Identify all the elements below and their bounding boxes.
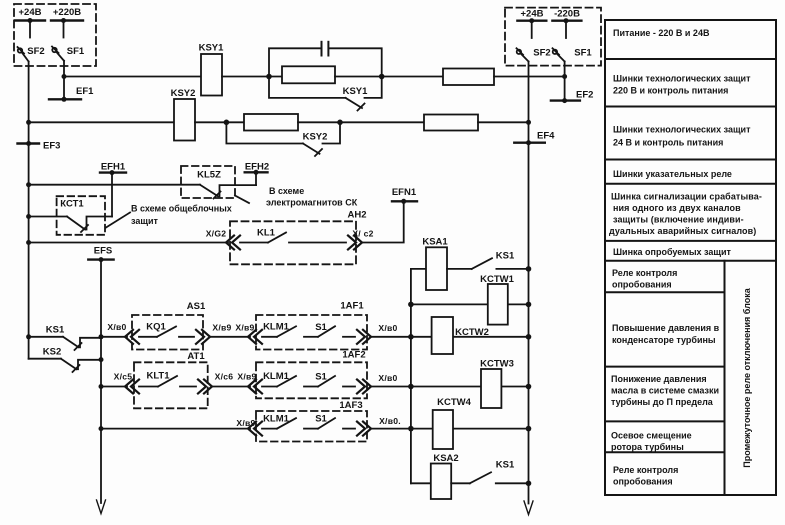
svg-text:ния одного из двух каналов: ния одного из двух каналов [613, 203, 741, 213]
arrow down (right) [524, 501, 533, 515]
svg-text:EF3: EF3 [43, 141, 60, 152]
svg-text:SF1: SF1 [574, 48, 592, 59]
relay coil KCTW1 [480, 274, 514, 325]
node KS2 right junction [99, 357, 104, 362]
connector X/v0 row2 right [357, 373, 398, 394]
wire row1 right segment [371, 336, 411, 338]
connector X/v9 row3 (into 1AF3) [236, 418, 262, 436]
svg-text:Повышение давления в: Повышение давления в [612, 323, 720, 333]
terminal EF4 [514, 131, 555, 146]
svg-text:X/в9: X/в9 [235, 323, 254, 333]
svg-text:-220В: -220В [554, 9, 580, 20]
contact KLM1 row1 [262, 322, 296, 337]
breaker SF2 (right) [517, 48, 551, 62]
svg-text:КСТ1: КСТ1 [60, 199, 84, 210]
svg-text:X/в0: X/в0 [378, 323, 397, 333]
svg-text:KLT1: KLT1 [146, 371, 170, 382]
svg-text:X/с6: X/с6 [215, 372, 234, 382]
legend row 10 text [611, 431, 692, 453]
svg-text:конденсаторе турбины: конденсаторе турбины [612, 335, 716, 345]
svg-text:KLM1: KLM1 [263, 322, 290, 333]
contact KLM1 row3 [262, 414, 296, 429]
node line2 left junction [26, 120, 31, 125]
contact KCT1 [67, 217, 112, 233]
resistor R2 [443, 69, 494, 86]
annotation leader to CK electromagnets [235, 186, 358, 208]
svg-text:Понижение давления: Понижение давления [611, 374, 707, 384]
node RC left junction [266, 74, 272, 80]
svg-text:KSY1: KSY1 [199, 43, 225, 54]
wire KCTW1 line [411, 303, 529, 305]
node collector/row1 [408, 334, 414, 340]
node KCT1 line left junction [26, 214, 31, 219]
node KS1 right junction [99, 334, 104, 339]
connector X/v0 row1 left [107, 322, 139, 344]
right supply dashed box [505, 8, 601, 66]
svg-text:защит: защит [131, 216, 158, 226]
wire row1 between connectors [210, 336, 250, 338]
node line4 left junction [26, 240, 31, 245]
svg-text:KLM1: KLM1 [263, 414, 290, 425]
node right bus/KCTW1 [526, 302, 532, 308]
node right bus/KCTW4 [526, 426, 532, 432]
svg-text:опробования: опробования [612, 280, 672, 290]
node +220V left bus terminal [51, 7, 83, 38]
wire KSA2 branch [411, 482, 431, 484]
svg-text:24 В и контроль питания: 24 В и контроль питания [613, 138, 723, 148]
wire row2 from EFS bus [101, 386, 127, 388]
svg-text:KSA2: KSA2 [433, 453, 458, 464]
svg-text:1AF2: 1AF2 [342, 350, 365, 361]
svg-text:масла в системе смазки: масла в системе смазки [611, 386, 719, 396]
legend table frame [605, 20, 776, 495]
svg-text:KSY2: KSY2 [171, 88, 196, 99]
node SF1r/line1 [562, 74, 567, 79]
svg-text:KS1: KS1 [46, 325, 65, 336]
node right bus/KCTW3 [526, 384, 532, 390]
svg-text:KS1: KS1 [496, 460, 515, 471]
svg-text:EF4: EF4 [537, 131, 555, 142]
node R3 left junction [224, 120, 230, 126]
node row2 left junction [99, 384, 104, 389]
wire EFS vertical bus [100, 260, 102, 503]
svg-text:В схеме: В схеме [269, 186, 304, 196]
relay coil KSY1 [199, 43, 225, 96]
arrow down (left) [97, 500, 106, 514]
node right bus/KSA2 [526, 481, 532, 487]
relay KL5Z dashed box [181, 166, 235, 198]
svg-text:+24В: +24В [521, 9, 544, 20]
svg-text:KL5Z: KL5Z [197, 170, 221, 181]
svg-text:турбины до П предела: турбины до П предела [611, 397, 714, 407]
relay coil KCTW3 [480, 359, 514, 409]
node right bus/KCTW2 [526, 334, 532, 340]
relay coil KSY2 [171, 88, 196, 141]
svg-text:Шинки технологических защит: Шинки технологических защит [613, 74, 751, 84]
cable 1AF2 dashed box [256, 350, 367, 399]
svg-text:KSY1: KSY1 [343, 86, 369, 97]
svg-text:EF1: EF1 [76, 86, 94, 97]
contact KSY1 (parallel branch) [269, 77, 382, 111]
wire KCT1 line [29, 216, 67, 218]
wire row2 between connectors [212, 386, 250, 388]
svg-text:Осевое смещение: Осевое смещение [611, 431, 692, 441]
svg-text:X/с5: X/с5 [114, 372, 133, 382]
wire line4 to EFN1 riser [362, 201, 404, 242]
svg-text:Шинка опробуемых защит: Шинка опробуемых защит [613, 247, 732, 257]
svg-text:Шинки технологических защит: Шинки технологических защит [613, 125, 751, 135]
svg-text:X/в0.: X/в0. [379, 416, 401, 426]
contact S1 row1 [304, 322, 355, 337]
terminal EF1 [49, 86, 94, 102]
svg-text:KCTW1: KCTW1 [480, 274, 514, 285]
wire SF1 drop to EF1 [63, 61, 65, 100]
connector X/v0 row3 right [357, 416, 401, 436]
cable 1AF3 dashed box [256, 400, 367, 442]
relay coil KSA1 [422, 237, 448, 291]
resistor R3 on line2 [244, 114, 298, 131]
contact S1 row3 [304, 414, 355, 429]
svg-text:KCTW3: KCTW3 [480, 359, 514, 370]
svg-text:AS1: AS1 [187, 301, 206, 312]
svg-text:KS1: KS1 [496, 251, 515, 262]
connector X/v0 row1 right [357, 323, 398, 344]
wire row1 from EFS bus [101, 336, 127, 338]
legend row 2 text [613, 74, 751, 96]
svg-text:Реле контроля: Реле контроля [613, 465, 678, 475]
svg-text:1AF1: 1AF1 [340, 301, 364, 312]
contact KL1 [240, 228, 346, 243]
wire collector vertical (x=410.9) [410, 269, 412, 483]
annotation leader to common-block protections [106, 204, 232, 228]
node line3 left junction [26, 182, 31, 187]
terminal EFH2 [245, 162, 269, 186]
cable AH2 dashed box [230, 210, 367, 265]
svg-text:KSY2: KSY2 [303, 132, 328, 143]
svg-text:KQ1: KQ1 [146, 322, 166, 333]
resistor R1 on line1 [282, 66, 335, 83]
wire line4 left segment [29, 242, 228, 244]
svg-text:S1: S1 [315, 414, 327, 425]
relay coil KSA2 [431, 453, 459, 499]
node -220V right bus terminal [552, 9, 581, 39]
wire line2 right segment [478, 121, 529, 123]
wire line1 right segment to SF1 right drop [494, 76, 565, 78]
terminal EF3 [18, 141, 61, 152]
node +24V right bus terminal [517, 9, 546, 39]
svg-text:Промежуточное реле отключени: Промежуточное реле отключения блока [742, 287, 752, 467]
legend row 7 text [612, 268, 677, 290]
left supply dashed box [14, 4, 96, 66]
svg-text:опробования: опробования [613, 477, 673, 487]
contact KS1 (left) [29, 325, 101, 351]
svg-text:SF2: SF2 [533, 48, 550, 59]
contact KS1 (bottom right) [451, 460, 528, 484]
svg-text:SF1: SF1 [67, 46, 85, 57]
node RC right junction [379, 74, 385, 80]
svg-text:X/в9: X/в9 [237, 372, 256, 382]
svg-text:X/в0: X/в0 [107, 322, 126, 332]
wire left vertical bus from SF2 [28, 62, 30, 359]
svg-text:X/в9: X/в9 [236, 418, 255, 428]
wire SF1 right drop to EF2 [564, 62, 566, 101]
terminal EFH1 [100, 162, 126, 217]
wire KCTW3 line [411, 386, 529, 388]
relay coil KCTW2 [432, 317, 489, 354]
wire line1 to RC block [222, 76, 282, 78]
legend row 5 text [609, 192, 762, 237]
svg-text:Реле контроля: Реле контроля [612, 268, 677, 278]
terminal EFS [88, 246, 113, 263]
capacitor C1 branch [269, 42, 382, 77]
connector X/c5 [114, 372, 139, 394]
svg-text:KL1: KL1 [257, 228, 276, 239]
node KS1 left junction [26, 334, 31, 339]
wire line2 to R3 block [195, 121, 245, 123]
relay KCT1 dashed box [57, 196, 105, 235]
wire row3 right segment [371, 428, 411, 430]
contact KSY2 (parallel branch) [226, 122, 340, 156]
svg-text:X/в0: X/в0 [378, 373, 397, 383]
svg-text:S1: S1 [315, 372, 327, 383]
wire row2 right segment [371, 386, 411, 388]
svg-text:электромагнитов СК: электромагнитов СК [266, 198, 358, 208]
svg-text:220 В и контроль питания: 220 В и контроль питания [613, 86, 728, 96]
wire KCTW4 line [411, 428, 529, 430]
node +24V left bus terminal [15, 7, 45, 38]
legend row 3 text [613, 125, 751, 148]
svg-text:KS2: KS2 [43, 347, 61, 358]
terminal EF2 [551, 90, 594, 104]
relay coil KCTW4 [433, 397, 472, 449]
svg-text:KLM1: KLM1 [263, 371, 290, 382]
terminal EFN1 [392, 187, 417, 204]
connector X/c2 [348, 229, 374, 250]
legend row 8 text [612, 323, 720, 345]
svg-text:KCTW2: KCTW2 [455, 327, 489, 338]
node junction SF1/line1 [62, 74, 67, 79]
breaker SF2 (left) [18, 46, 45, 62]
svg-text:дуальных аварийных сигналов): дуальных аварийных сигналов) [609, 226, 756, 236]
connector X/v9 row1 (out of AS1) [196, 323, 232, 344]
node collector/row3 [408, 426, 414, 432]
resistor R4 [424, 115, 478, 131]
legend row 9 text [611, 374, 719, 407]
wire KSA1 branch [411, 268, 426, 270]
node collector/row2 [408, 384, 414, 390]
connector X/v9 row1 (into 1AF1) [235, 323, 262, 344]
svg-text:+24В: +24В [19, 7, 42, 18]
breaker SF1 (right) [553, 48, 593, 62]
contact KS2 (left) [29, 347, 101, 373]
node right bus/line2 [526, 120, 531, 125]
svg-text:защиты (включение индиви-: защиты (включение индиви- [613, 215, 744, 225]
connector X/G2 [206, 229, 240, 250]
legend row 11 text [613, 465, 678, 487]
contact KS1 (top right) [447, 251, 529, 269]
svg-text:Шинки указательных реле: Шинки указательных реле [613, 169, 732, 179]
wire line2 left segment [29, 121, 174, 123]
svg-text:АН2: АН2 [347, 210, 366, 221]
node collector/KCTW1 line [408, 302, 414, 308]
svg-text:+220В: +220В [53, 7, 81, 18]
svg-text:ротора турбины: ротора турбины [611, 442, 684, 452]
svg-text:SF2: SF2 [27, 46, 44, 57]
wire line1 left segment [64, 76, 201, 78]
svg-text:EFN1: EFN1 [392, 187, 417, 198]
svg-text:Шинка сигнализации срабатыва-: Шинка сигнализации срабатыва- [611, 192, 762, 202]
connector X/c6 (out of AT1) [198, 372, 233, 394]
wire R3 to right node [298, 121, 340, 123]
svg-text:Питание - 220 В и 24В: Питание - 220 В и 24В [613, 28, 710, 38]
node R3 right junction [337, 120, 343, 126]
cable 1AF1 dashed box [256, 301, 367, 350]
cable AT1 dashed box [134, 351, 208, 408]
cable AS1 dashed box [132, 301, 206, 350]
wire KCTW2 line [411, 336, 529, 338]
connector X/v9 row2 (into 1AF2) [237, 372, 262, 394]
contact KLT1 [139, 371, 196, 387]
wire resistor R1 to right node [335, 76, 382, 78]
svg-text:X/G2: X/G2 [206, 229, 227, 239]
contact KQ1 [139, 322, 194, 337]
wire line3 [29, 184, 200, 186]
wire row3 from EFS bus [101, 428, 250, 430]
svg-text:В схеме общеблочных: В схеме общеблочных [131, 204, 232, 214]
wire right vertical bus from SF2 right [528, 62, 530, 504]
svg-text:EF2: EF2 [576, 90, 593, 101]
wire line2 to resistor R4 [340, 121, 424, 123]
contact S1 row2 [304, 372, 355, 387]
svg-text:KSA1: KSA1 [422, 237, 448, 248]
node right bus/KS1 [526, 266, 532, 272]
node row3 left junction [99, 426, 104, 431]
wire line1 to resistor R2 [382, 76, 443, 78]
svg-text:KCTW4: KCTW4 [437, 397, 471, 408]
svg-text:AT1: AT1 [187, 351, 205, 362]
svg-text:1AF3: 1AF3 [339, 400, 362, 411]
svg-text:EFS: EFS [94, 246, 112, 257]
breaker SF1 (left) [52, 46, 85, 61]
svg-text:S1: S1 [315, 322, 327, 333]
contact KLM1 row2 [262, 371, 296, 387]
contact KL5Z [200, 185, 256, 199]
svg-text:X/в9: X/в9 [212, 323, 231, 333]
